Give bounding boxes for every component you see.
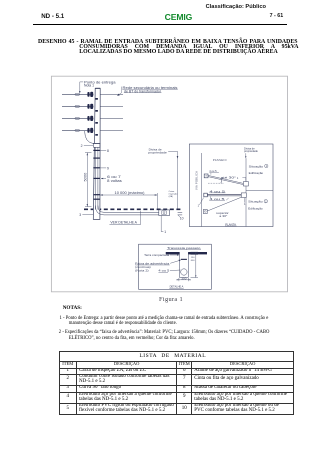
ref dashed line + angle arc sit.1 xyxy=(208,182,224,184)
leader item 8 xyxy=(100,150,106,152)
divisa arrow (plan) xyxy=(245,153,247,156)
pole xyxy=(93,88,100,219)
svg-text:1: 1 xyxy=(164,230,166,234)
via publica line xyxy=(200,153,202,227)
faixa leader xyxy=(170,260,180,263)
header: CEMIG logo xyxy=(165,12,193,22)
terra leader xyxy=(170,254,178,256)
svg-text:2: 2 xyxy=(81,144,83,148)
straps (cinta/arame) xyxy=(93,150,100,200)
leader item 1 xyxy=(161,216,163,232)
VER DETALHE A leader xyxy=(109,211,140,225)
insulator stacks xyxy=(87,92,93,133)
figure frame xyxy=(51,76,287,292)
NOTAS heading xyxy=(63,305,82,311)
leader item 3 xyxy=(82,214,93,216)
duct stub into property xyxy=(178,212,183,215)
svg-text:Edificação: Edificação xyxy=(249,171,264,175)
tick from 4ou5 to diagonal xyxy=(210,173,212,175)
jumper stubs right of pole xyxy=(100,94,123,130)
svg-text:VIA PÚBLICA: VIA PÚBLICA xyxy=(194,171,199,190)
underground duct bend and run xyxy=(95,206,158,215)
svg-text:Situação: Situação xyxy=(248,200,263,204)
figura 1 caption xyxy=(159,296,183,303)
cabecote (bell end) xyxy=(94,143,100,147)
plan box xyxy=(189,144,273,227)
svg-text:1: 1 xyxy=(198,204,200,208)
header: ND - 5.1 xyxy=(41,13,64,20)
svg-text:VER DETALHE A: VER DETALHE A xyxy=(110,221,137,225)
svg-text:propriedade: propriedade xyxy=(148,151,167,155)
svg-text:1: 1 xyxy=(244,202,246,206)
leader item 9 xyxy=(100,167,106,169)
conduit on pole xyxy=(95,147,98,209)
leader 1 to caixa D xyxy=(243,198,245,203)
svg-text:PLANTA: PLANTA xyxy=(225,222,236,226)
pole A (plan) xyxy=(204,174,208,178)
svg-text:10: 10 xyxy=(180,217,184,221)
material table xyxy=(59,351,295,415)
situacao divider xyxy=(246,190,273,192)
svg-text:10 000 (máximo): 10 000 (máximo) xyxy=(115,191,145,195)
svg-text:PASSEIO: PASSEIO xyxy=(213,158,227,162)
svg-text:2: 2 xyxy=(265,201,267,203)
divisa line (plan) xyxy=(245,158,247,226)
pavement slabs xyxy=(166,252,180,254)
dim right xyxy=(191,252,199,277)
svg-text:Travessia passeio: Travessia passeio xyxy=(167,246,201,250)
4ou5 leader xyxy=(170,269,181,272)
conductor bend into conduit xyxy=(85,131,94,144)
svg-text:(ZA): (ZA) xyxy=(169,195,174,198)
note 1 xyxy=(60,316,269,321)
title line 3 xyxy=(79,49,278,55)
ponto de entrega leader xyxy=(80,82,83,91)
svg-text:9: 9 xyxy=(107,166,109,170)
svg-text:Terra compactada: Terra compactada xyxy=(144,253,170,257)
svg-text:Nota 1: Nota 1 xyxy=(84,84,94,88)
title line 2 xyxy=(79,44,298,50)
wire connectors xyxy=(75,93,80,131)
horizontal duct sit.2 xyxy=(207,194,241,196)
dim 10000 xyxy=(100,193,157,209)
svg-text:8 voltas: 8 voltas xyxy=(107,179,122,183)
caixa D xyxy=(241,193,246,198)
dim 5000 xyxy=(85,153,92,207)
trench walls xyxy=(180,252,189,277)
leader 6ou7 arrow xyxy=(101,178,106,180)
duct circle xyxy=(181,269,187,275)
svg-text:a 30°: a 30° xyxy=(219,214,227,218)
svg-text:Edificação: Edificação xyxy=(248,206,263,210)
box C xyxy=(204,193,208,197)
svg-text:150: 150 xyxy=(191,257,195,259)
svg-text:(Nota 2): (Nota 2) xyxy=(135,269,149,273)
diagonal duct sit.1 xyxy=(208,175,243,184)
ground dashed duct run xyxy=(84,208,181,210)
leader item 10 xyxy=(178,215,180,217)
leader 1 to caixa B xyxy=(242,177,245,180)
secondary network wires xyxy=(62,94,94,130)
caixa B xyxy=(243,182,248,186)
svg-text:600: 600 xyxy=(191,260,195,262)
header: Classificação xyxy=(206,4,266,10)
leader item 2 xyxy=(84,145,93,147)
bolt marks on pole xyxy=(95,98,98,136)
tick 4ou5 bottom xyxy=(211,196,229,200)
title line 1 xyxy=(38,39,297,45)
svg-text:Situação: Situação xyxy=(249,164,264,168)
header rule xyxy=(33,24,287,25)
rede secundaria underline + arrow xyxy=(122,87,178,93)
svg-text:300: 300 xyxy=(181,277,187,280)
inspection box at ground xyxy=(159,210,170,216)
svg-text:3: 3 xyxy=(79,213,81,217)
svg-text:1: 1 xyxy=(237,176,239,180)
divisa leader (elevation) xyxy=(168,151,177,208)
svg-text:5000: 5000 xyxy=(83,173,87,182)
svg-text:propriedade: propriedade xyxy=(244,149,258,153)
note 2 xyxy=(59,330,270,335)
svg-text:(contínua): (contínua) xyxy=(135,265,151,269)
leader 1 to box C xyxy=(199,198,203,205)
warning tape xyxy=(181,259,187,260)
svg-text:de BT do transformador: de BT do transformador xyxy=(124,89,162,93)
caixa E + diagonal xyxy=(203,209,207,213)
detail box xyxy=(139,244,212,289)
dim 300 xyxy=(177,278,191,281)
svg-text:4 ou 5: 4 ou 5 xyxy=(209,169,217,173)
svg-text:até 30°: até 30° xyxy=(221,175,236,179)
header: page number xyxy=(270,13,284,19)
svg-text:8: 8 xyxy=(107,149,109,153)
